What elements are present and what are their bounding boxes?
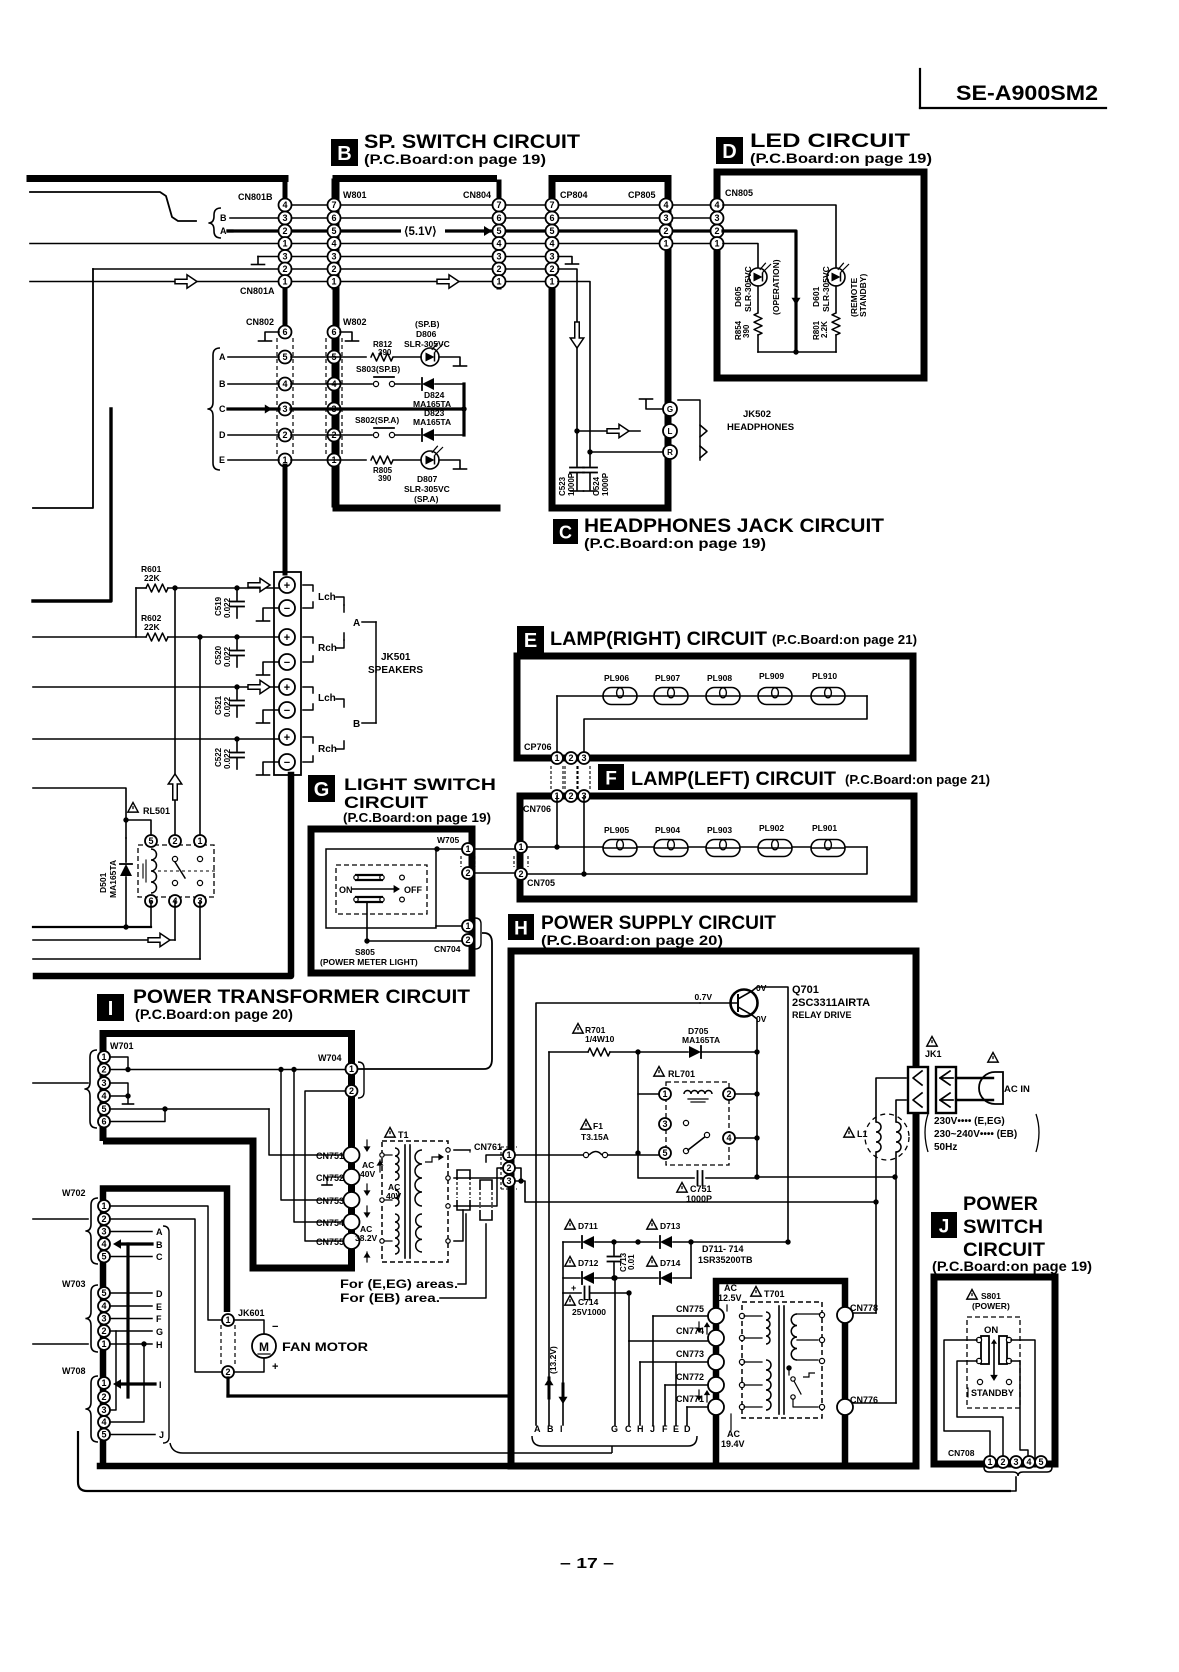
diode D713: [611, 1220, 790, 1249]
svg-text:1: 1: [282, 239, 287, 249]
ribbon CP706-CN706: [551, 766, 590, 790]
svg-text:FAN MOTOR: FAN MOTOR: [282, 1340, 368, 1354]
wire CN778 net: [853, 1312, 876, 1314]
svg-text:5: 5: [101, 1288, 106, 1298]
wire G net down: [110, 1331, 116, 1410]
svg-text:1: 1: [349, 1064, 354, 1074]
label 13.2V: [548, 1346, 558, 1374]
switch frame G: [326, 849, 436, 928]
svg-text:W702: W702: [62, 1188, 86, 1198]
connector CN771: [676, 1394, 724, 1415]
svg-text:D714: D714: [660, 1258, 681, 1268]
connector CP706: [551, 752, 590, 764]
svg-text:0.022: 0.022: [223, 748, 232, 769]
wire W704 pin1 net: [0, 0, 1, 1]
svg-text:4: 4: [726, 1133, 731, 1143]
wire left y788: [33, 788, 126, 838]
lamp PL904: [654, 825, 688, 857]
label Rch A: [303, 637, 344, 662]
wire CN805 pin1 net: [723, 244, 758, 269]
wire S801 right2: [1011, 1361, 1028, 1458]
label AC 38.2V: [355, 1206, 378, 1262]
svg-text:JK501: JK501: [381, 652, 411, 663]
arrow up B net: [545, 1378, 554, 1398]
svg-text:230V•••• (E,EG): 230V•••• (E,EG): [934, 1116, 1005, 1127]
svg-text:2: 2: [465, 935, 470, 945]
svg-text:A: A: [220, 226, 227, 236]
capacitor C519 0.022: [214, 585, 244, 618]
left feed W703 area: [33, 1343, 88, 1345]
node R junction: [587, 449, 592, 454]
svg-text:4: 4: [101, 1239, 106, 1249]
wire B net vertical: [548, 1052, 550, 1425]
connector CN776: [837, 1395, 878, 1415]
label W703: [62, 1279, 86, 1289]
diode D501 MA165TA: [98, 838, 132, 927]
model title SE-A900SM2: [920, 69, 1106, 108]
arrow down D: [792, 298, 801, 305]
capacitor C520 0.022: [214, 634, 244, 667]
svg-text:MA165TA: MA165TA: [413, 417, 451, 427]
wire L1 tops to JK1: [876, 1078, 906, 1122]
svg-text:7: 7: [549, 200, 554, 210]
svg-text:J: J: [650, 1424, 655, 1434]
net H wire: [110, 1340, 163, 1350]
section I title: [133, 987, 470, 1022]
brace W704: [352, 1062, 365, 1098]
wire J net: [653, 1316, 712, 1425]
svg-text:2: 2: [726, 1089, 731, 1099]
svg-text:(P.C.Board:on page 19): (P.C.Board:on page 19): [584, 536, 766, 551]
svg-text:JK601: JK601: [238, 1308, 265, 1318]
lamp PL905: [603, 825, 637, 857]
svg-text:6: 6: [549, 213, 554, 223]
svg-text:POWER SUPPLY CIRCUIT: POWER SUPPLY CIRCUIT: [541, 913, 776, 934]
svg-text:H: H: [637, 1424, 644, 1434]
svg-text:CN754: CN754: [316, 1218, 344, 1228]
wire RL701 pin4: [735, 1135, 760, 1140]
svg-text:ON: ON: [339, 885, 353, 895]
svg-text:CIRCUIT: CIRCUIT: [963, 1240, 1045, 1261]
svg-text:4: 4: [496, 239, 501, 249]
label AC 12.5V: [718, 1283, 742, 1311]
label OPERATION: [771, 259, 781, 315]
svg-text:CN775: CN775: [676, 1304, 704, 1314]
transformer T1: [380, 1141, 450, 1262]
wire W702 pin2 to JK601: [110, 1219, 221, 1372]
connector CN801B: [279, 199, 292, 251]
selector E EG dashed: [457, 1170, 470, 1210]
svg-text:1: 1: [518, 842, 523, 852]
svg-text:C: C: [156, 1252, 163, 1262]
svg-text:2: 2: [568, 791, 573, 801]
svg-text:3: 3: [101, 1227, 106, 1237]
section H label: [508, 914, 534, 940]
svg-text:OFF: OFF: [404, 885, 422, 895]
connector CP804: [546, 199, 559, 289]
diode D712: [563, 1257, 658, 1285]
brace CN708: [984, 1467, 1052, 1476]
wire row3 (A, 5.1V): [228, 229, 711, 232]
svg-text:STANDBY: STANDBY: [971, 1388, 1014, 1398]
section I label: [97, 994, 124, 1021]
svg-text:PL901: PL901: [812, 823, 837, 833]
wire relay x200: [199, 637, 201, 838]
ground at row5: [252, 257, 280, 265]
wire G net: [612, 1275, 617, 1425]
svg-text:D713: D713: [660, 1221, 681, 1231]
switch S802: [341, 415, 399, 438]
svg-text:S803(SP.B): S803(SP.B): [356, 364, 400, 374]
svg-text:D712: D712: [578, 1258, 599, 1268]
inductor L1: [844, 1114, 909, 1160]
svg-text:3: 3: [496, 252, 501, 262]
wire from CP804 pin1 down: [558, 282, 590, 453]
wire H net: [640, 1362, 712, 1425]
svg-text:(P.C.Board:on page 19): (P.C.Board:on page 19): [750, 151, 932, 166]
svg-text:1: 1: [663, 239, 668, 249]
wire bus x464: [461, 384, 466, 435]
svg-text:2: 2: [101, 1392, 106, 1402]
svg-text:2: 2: [172, 836, 177, 846]
svg-text:PL909: PL909: [759, 671, 784, 681]
svg-text:50Hz: 50Hz: [934, 1142, 957, 1153]
svg-text:CN708: CN708: [948, 1448, 975, 1458]
net J wire: [110, 1430, 164, 1440]
svg-text:3: 3: [714, 213, 719, 223]
svg-text:CN773: CN773: [676, 1349, 704, 1359]
box I outline: [103, 1034, 352, 1269]
svg-text:J: J: [159, 1430, 164, 1440]
svg-text:D601: D601: [811, 286, 821, 307]
connector JK1: [908, 1037, 956, 1114]
svg-text:3: 3: [282, 252, 287, 262]
svg-text:I: I: [560, 1424, 563, 1434]
svg-text:1000P: 1000P: [601, 472, 610, 496]
svg-text:D: D: [684, 1424, 691, 1434]
svg-text:CIRCUIT: CIRCUIT: [344, 793, 429, 812]
wire C net: [629, 1293, 712, 1425]
label AC 40V b: [364, 1182, 402, 1201]
svg-text:0V: 0V: [756, 983, 767, 993]
wire row1: [291, 204, 711, 206]
wire W801 column: [332, 181, 337, 287]
label A bracket: [344, 605, 376, 660]
svg-text:F: F: [605, 768, 617, 789]
wire F net: [665, 1385, 712, 1425]
svg-text:4: 4: [282, 379, 287, 389]
svg-text:2: 2: [225, 1367, 230, 1377]
section E label: [517, 626, 544, 653]
arrow on row7: [175, 275, 197, 289]
svg-text:PL904: PL904: [655, 825, 680, 835]
label B bracket: [353, 719, 376, 730]
wire relay bottom y927: [33, 901, 151, 930]
svg-text:1: 1: [101, 1201, 106, 1211]
ground after D806: [439, 357, 467, 366]
svg-text:CP805: CP805: [628, 190, 656, 200]
wire C bus x111: [33, 409, 111, 601]
wire W701 pin6: [110, 1109, 165, 1122]
wire S801 left2: [957, 1361, 1003, 1458]
brace B/A: [208, 208, 221, 238]
svg-text:1: 1: [714, 239, 719, 249]
connector W703: [98, 1287, 110, 1350]
svg-text:(P.C.Board:on page 19): (P.C.Board:on page 19): [343, 811, 491, 825]
svg-text:Rch: Rch: [318, 744, 337, 755]
left section bottom bus: [36, 775, 291, 976]
wire to R pin: [590, 451, 663, 453]
svg-text:B: B: [156, 1240, 163, 1250]
svg-text:C520: C520: [214, 645, 223, 665]
wire CN801B column: [283, 179, 288, 249]
svg-text:0.01: 0.01: [627, 1254, 636, 1270]
svg-text:2.2K: 2.2K: [820, 321, 829, 338]
connector CN751: [316, 1147, 360, 1163]
label W708: [62, 1366, 86, 1376]
wire Q701 collector: [752, 987, 788, 1242]
wire W702 pin1 to JK601: [110, 1206, 221, 1320]
label mains voltage: [925, 1114, 1039, 1153]
diode D824 MA165TA: [395, 378, 464, 409]
svg-text:3: 3: [663, 213, 668, 223]
wire row2: [230, 217, 711, 219]
dashed box S805: [336, 865, 427, 914]
svg-text:0.7V: 0.7V: [695, 992, 713, 1002]
ground W701 pin4: [123, 1096, 134, 1104]
wire S801 right: [1011, 1340, 1035, 1458]
svg-text:PL906: PL906: [604, 673, 629, 683]
svg-text:AC: AC: [724, 1283, 737, 1293]
wire E net: [675, 1362, 677, 1425]
svg-text:C751: C751: [690, 1184, 712, 1194]
svg-text:CN705: CN705: [527, 878, 555, 888]
svg-text:T1: T1: [398, 1130, 409, 1140]
svg-text:4: 4: [331, 239, 336, 249]
svg-text:J: J: [939, 1216, 950, 1237]
wire C751 row right: [754, 1174, 897, 1179]
svg-text:2: 2: [518, 869, 523, 879]
label D806: [404, 319, 450, 349]
wire motor to JK601 pin2: [234, 1358, 278, 1373]
connector CN801A: [279, 250, 292, 288]
connector W801: [328, 199, 341, 289]
svg-text:F1: F1: [593, 1121, 603, 1131]
svg-text:C522: C522: [214, 747, 223, 767]
svg-text:F: F: [662, 1424, 668, 1434]
svg-text:5: 5: [282, 352, 287, 362]
terminal + B Lch: [279, 679, 295, 695]
svg-text:T701: T701: [764, 1289, 785, 1299]
connector W802: [328, 326, 341, 467]
svg-text:I: I: [159, 1380, 162, 1390]
capacitor C521 0.022: [214, 684, 244, 717]
svg-text:1: 1: [331, 277, 336, 287]
section E title: [550, 629, 917, 650]
box E outline: [517, 656, 913, 758]
wire CN704-2 to CN761: [0, 0, 1, 1]
svg-text:LIGHT SWITCH: LIGHT SWITCH: [344, 775, 496, 794]
svg-text:C: C: [559, 523, 572, 543]
wire A net vertical: [536, 1003, 700, 1425]
svg-text:W704: W704: [318, 1053, 342, 1063]
svg-text:6: 6: [331, 213, 336, 223]
resistor R854 390: [734, 286, 762, 352]
wire L1 right leg: [876, 1152, 896, 1403]
ground C519: [257, 608, 280, 621]
svg-text:2: 2: [331, 264, 336, 274]
connector CN754: [316, 1214, 360, 1230]
svg-text:C521: C521: [214, 695, 223, 715]
section G label: [308, 775, 335, 802]
label D601: [811, 266, 831, 312]
svg-text:1000P: 1000P: [567, 472, 576, 496]
svg-text:C: C: [625, 1424, 632, 1434]
svg-text:JK502: JK502: [743, 409, 771, 420]
svg-text:+: +: [272, 1361, 278, 1373]
svg-text:SLR-305VC: SLR-305VC: [821, 266, 831, 312]
svg-text:ON: ON: [984, 1325, 998, 1336]
svg-text:CN704: CN704: [434, 944, 461, 954]
svg-text:2: 2: [496, 264, 501, 274]
svg-text:G: G: [667, 405, 673, 414]
left feed W702 area: [33, 1218, 88, 1220]
svg-text:+: +: [284, 632, 290, 644]
svg-text:B: B: [220, 213, 227, 223]
svg-text:1: 1: [506, 1150, 511, 1160]
wire CN801A column: [283, 250, 288, 287]
bracket under letters: [532, 1436, 697, 1446]
label D605: [733, 266, 753, 312]
svg-text:B: B: [337, 143, 351, 165]
svg-text:E: E: [673, 1424, 679, 1434]
label CN804: [463, 190, 491, 200]
wire I net vertical: [562, 1293, 564, 1425]
label JK502: [727, 409, 794, 433]
svg-text:2: 2: [568, 753, 573, 763]
label CN805: [725, 188, 753, 198]
connector JK601: [221, 1308, 265, 1378]
svg-text:HEADPHONES: HEADPHONES: [727, 422, 794, 433]
svg-text:5: 5: [101, 1104, 106, 1114]
lamp PL908: [706, 673, 740, 705]
ribbon dashes CN802: [277, 338, 293, 455]
wire CP706 pin1 up: [556, 696, 558, 752]
svg-text:RL501: RL501: [143, 806, 170, 816]
svg-text:D: D: [156, 1289, 163, 1299]
fan motor M: [252, 1334, 368, 1358]
svg-text:1: 1: [101, 1378, 106, 1388]
wire inner frame to CN704: [436, 925, 462, 927]
svg-text:H: H: [156, 1340, 163, 1350]
svg-text:CN755: CN755: [316, 1237, 344, 1247]
terminal - A Lch: [279, 600, 295, 616]
svg-text:1: 1: [554, 753, 559, 763]
terminal - B Rch: [279, 754, 295, 770]
wire bridge left: [562, 1242, 564, 1293]
box T701 outline: [716, 1281, 845, 1466]
svg-text:SLR-305VC: SLR-305VC: [404, 339, 450, 349]
wire row B2 internal: [291, 383, 340, 385]
wire CN706 pin1 down: [556, 796, 558, 847]
wire to CN753: [281, 1070, 345, 1201]
node 5.1V label: [401, 220, 492, 238]
svg-text:W802: W802: [343, 317, 367, 327]
net label A2: [219, 352, 279, 362]
svg-text:E: E: [219, 455, 225, 465]
svg-text:3: 3: [662, 1119, 667, 1129]
svg-text:2: 2: [101, 1065, 106, 1075]
svg-text:6: 6: [331, 327, 336, 337]
wire D net: [687, 1407, 712, 1425]
switch S801 label: [967, 1290, 1010, 1312]
node R601 out: [172, 585, 177, 590]
svg-text:3: 3: [549, 252, 554, 262]
label CP805: [628, 190, 656, 200]
label Q701: [695, 983, 871, 1024]
ribbon CN705 col2: [514, 856, 528, 867]
connector CP805: [660, 199, 673, 251]
wire JK601 pin1 to motor: [234, 1320, 278, 1334]
label ON OFF: [339, 885, 422, 895]
lamp PL906: [603, 673, 637, 705]
lamp PL910: [811, 671, 845, 705]
box F outline: [520, 796, 914, 899]
svg-text:19.4V: 19.4V: [721, 1439, 745, 1449]
arrow on row7 right: [437, 275, 459, 289]
connector CN761: [474, 1142, 517, 1189]
svg-text:5: 5: [331, 226, 336, 236]
svg-text:W703: W703: [62, 1279, 86, 1289]
svg-text:CN752: CN752: [316, 1173, 344, 1183]
ground CP804 pin3: [558, 257, 579, 265]
ground after D807: [439, 460, 467, 469]
svg-text:6: 6: [282, 327, 287, 337]
ground CN752: [322, 1177, 345, 1185]
svg-text:230~240V•••• (EB): 230~240V•••• (EB): [934, 1129, 1017, 1140]
section C title: [584, 516, 884, 551]
section B label: [331, 139, 358, 166]
svg-text:(P.C.Board:on page 19): (P.C.Board:on page 19): [364, 152, 546, 167]
capacitor C523 1000P: [558, 431, 584, 496]
svg-text:C: C: [219, 404, 226, 414]
svg-text:(P.C.Board:on page 19): (P.C.Board:on page 19): [932, 1259, 1092, 1274]
arrow down to jack: [570, 322, 584, 348]
svg-text:RL701: RL701: [668, 1069, 695, 1079]
terminal + A Lch: [279, 577, 295, 593]
wire row4: [30, 243, 711, 245]
connector CN755: [316, 1233, 360, 1249]
svg-text:LED CIRCUIT: LED CIRCUIT: [750, 131, 911, 152]
svg-text:B: B: [219, 379, 226, 389]
wire letters to left bus: [170, 1443, 612, 1453]
wire B net down: [126, 1244, 129, 1397]
svg-text:3: 3: [282, 404, 287, 414]
net letters GCHJFED: [611, 1424, 691, 1434]
wire CN761 pin2 link: [515, 1168, 524, 1184]
svg-text:2: 2: [549, 264, 554, 274]
svg-text:D711: D711: [578, 1221, 598, 1231]
svg-text:(POWER): (POWER): [972, 1301, 1010, 1311]
ac plug ACIN: [956, 1053, 1030, 1105]
svg-text:0.022: 0.022: [223, 646, 232, 667]
net D wire: [110, 1289, 163, 1299]
wire row E2 internal: [291, 459, 366, 461]
svg-text:2: 2: [282, 264, 287, 274]
connector CN802: [279, 326, 292, 467]
wire CN805 pin4 net: [723, 205, 836, 268]
brace A-E: [207, 348, 220, 470]
